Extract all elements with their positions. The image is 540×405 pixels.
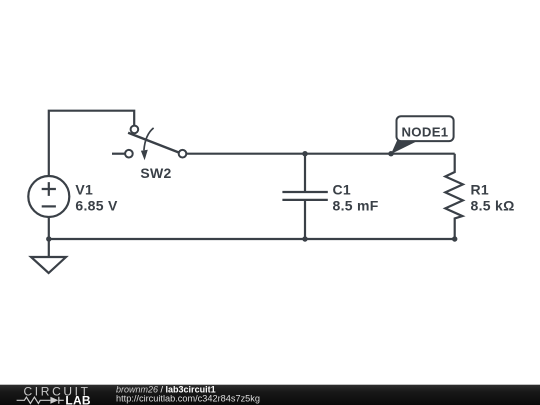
svg-text:R1: R1 bbox=[471, 182, 490, 198]
svg-text:SW2: SW2 bbox=[140, 165, 171, 181]
svg-text:6.85 V: 6.85 V bbox=[75, 198, 118, 214]
svg-text:NODE1: NODE1 bbox=[401, 124, 448, 139]
svg-text:V1: V1 bbox=[75, 182, 93, 198]
svg-text:http://circuitlab.com/c342r84s: http://circuitlab.com/c342r84s7z5kg bbox=[116, 394, 260, 404]
svg-text:8.5 kΩ: 8.5 kΩ bbox=[471, 198, 515, 214]
svg-text:LAB: LAB bbox=[65, 393, 91, 405]
svg-text:8.5 mF: 8.5 mF bbox=[333, 198, 379, 214]
svg-text:C1: C1 bbox=[333, 182, 352, 198]
